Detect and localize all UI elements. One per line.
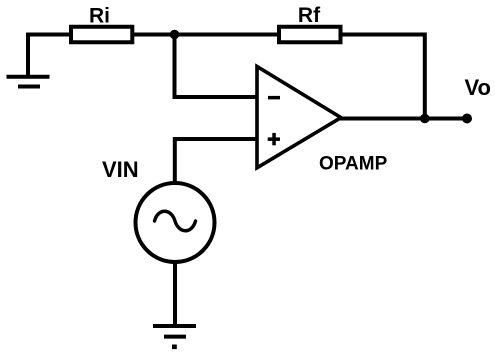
node junction at inverting input tap	[170, 30, 180, 40]
wire: source bottom to ground	[173, 261, 177, 324]
svg-text:Ri: Ri	[89, 5, 110, 28]
wire: Ri to Rf	[132, 33, 279, 37]
wire: op-amp output	[339, 117, 467, 121]
op-amp plus sign	[268, 133, 280, 145]
svg-text:Rf: Rf	[298, 4, 321, 27]
wire: left corner from ground up to Ri	[28, 35, 69, 77]
resistor Ri	[71, 27, 132, 43]
node terminal Vo	[462, 114, 472, 124]
svg-text:VIN: VIN	[102, 157, 139, 182]
node junction output/feedback	[420, 114, 430, 124]
svg-text:OPAMP: OPAMP	[319, 153, 388, 174]
wire: Rf right, corner down to output node	[339, 35, 425, 119]
ground (left)	[7, 77, 50, 87]
op-amp U1 triangle	[257, 67, 341, 168]
resistor Rf	[279, 27, 341, 43]
source VIN sine wave	[155, 211, 196, 231]
ground (bottom)	[153, 326, 196, 349]
wire: non-inverting input to source	[175, 139, 257, 185]
svg-text:Vo: Vo	[465, 75, 491, 100]
source VIN circle	[136, 183, 215, 262]
op-amp minus sign	[268, 96, 280, 100]
wire: feedback tap down to inverting input	[175, 35, 258, 98]
